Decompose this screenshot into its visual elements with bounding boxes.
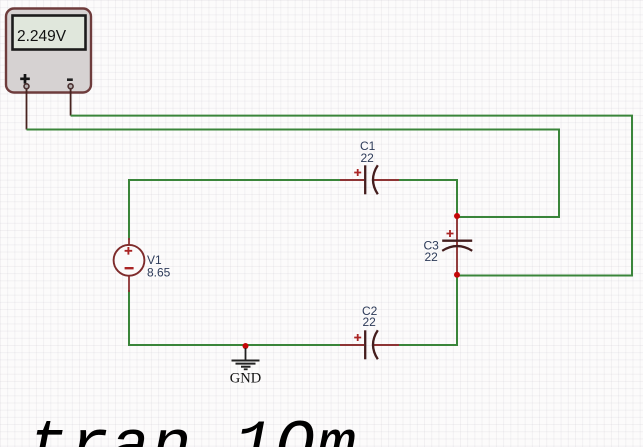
voltmeter - terminal (68, 84, 73, 89)
voltmeter display (13, 16, 86, 50)
wire: voltmeter + pin (dark) (26, 90, 28, 130)
voltmeter body (6, 9, 91, 93)
svg-text:GND: GND (230, 371, 261, 387)
capacitor C1 (340, 165, 399, 194)
wire: left side below V1 to bottom rail (129, 290, 340, 345)
voltmeter - label (67, 78, 73, 81)
capacitor C3 (vertical) (442, 216, 472, 275)
svg-text:22: 22 (361, 151, 375, 165)
svg-text:22: 22 (363, 315, 377, 329)
voltage source V1 (114, 238, 145, 292)
junction node: C3 top (454, 213, 460, 219)
capacitor C2 (340, 330, 399, 359)
svg-text:8.65: 8.65 (147, 266, 171, 280)
wire: bottom rail C2 to C3 bottom junction (399, 276, 457, 345)
simulation directive text: tran 10m (28, 415, 358, 447)
wire: voltmeter - to C3 bottom junction (outer loop) (71, 116, 632, 276)
voltmeter + terminal (24, 84, 29, 89)
ground symbol (232, 348, 260, 369)
wire: top side, left segment to C1 (129, 180, 340, 240)
wire: voltmeter - pin (dark) (70, 90, 72, 116)
junction node: ground tap (243, 343, 249, 349)
svg-text:22: 22 (425, 250, 439, 264)
voltmeter + label (20, 74, 30, 84)
svg-text:2.249V: 2.249V (17, 28, 67, 45)
wire: voltmeter + to C3 top junction (inner loop) (27, 130, 560, 218)
wire: top side, C1 to C3 top junction (399, 180, 457, 215)
junction node: C3 bottom (454, 272, 460, 278)
